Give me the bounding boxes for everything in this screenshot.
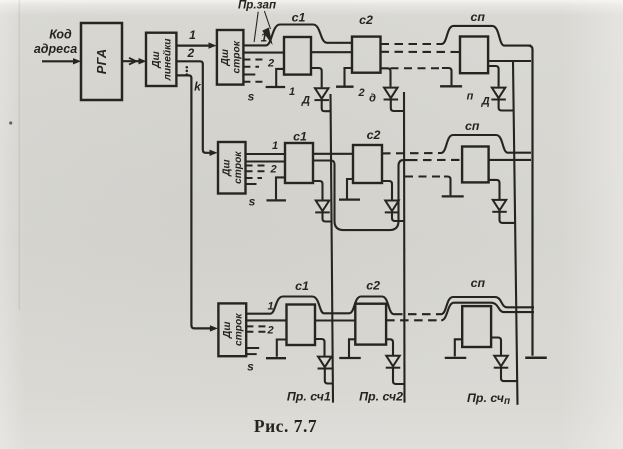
svg-text:с1: с1 — [295, 279, 309, 293]
svg-text:Дш: Дш — [151, 51, 162, 68]
svg-text:адреса: адреса — [34, 42, 77, 56]
svg-text:Пр. сч2: Пр. сч2 — [359, 390, 403, 404]
svg-text:с2: с2 — [366, 279, 380, 293]
svg-text:s: s — [247, 360, 254, 374]
svg-text:п: п — [467, 91, 474, 103]
svg-text:s: s — [249, 195, 256, 209]
svg-text:Пр. сч1: Пр. сч1 — [287, 390, 331, 404]
svg-text:сп: сп — [471, 276, 486, 290]
svg-text:2: 2 — [186, 46, 194, 60]
svg-text:с1: с1 — [292, 10, 306, 24]
svg-text:строк: строк — [233, 151, 244, 184]
svg-text:д: д — [369, 93, 376, 105]
svg-text:строк: строк — [231, 40, 242, 73]
svg-text:Дш: Дш — [222, 322, 233, 339]
svg-text:с1: с1 — [293, 129, 307, 143]
svg-text:2: 2 — [269, 163, 276, 175]
svg-text:Д: Д — [481, 96, 490, 108]
svg-text:1: 1 — [189, 28, 196, 42]
svg-text:2: 2 — [266, 324, 273, 336]
svg-text:Рис. 7.7: Рис. 7.7 — [254, 416, 317, 436]
svg-text:1: 1 — [289, 86, 295, 98]
svg-text:Код: Код — [49, 27, 72, 41]
svg-text:с2: с2 — [367, 128, 381, 142]
svg-text:сп: сп — [465, 119, 480, 133]
svg-text:s: s — [248, 90, 255, 104]
svg-text:1: 1 — [272, 140, 278, 152]
svg-text:1: 1 — [267, 301, 273, 313]
svg-text:2: 2 — [267, 58, 274, 70]
svg-text:Дш: Дш — [221, 159, 232, 176]
svg-text:Пр.зап: Пр.зап — [238, 0, 276, 12]
svg-text:Д: Д — [301, 95, 310, 107]
svg-text:Дш: Дш — [220, 49, 231, 66]
svg-text:Пр. счп: Пр. счп — [467, 391, 510, 407]
svg-text:2: 2 — [357, 87, 364, 99]
svg-text:с2: с2 — [359, 13, 373, 27]
svg-text:сп: сп — [470, 10, 485, 24]
svg-text:РГА: РГА — [94, 49, 109, 74]
svg-text:1: 1 — [261, 33, 267, 45]
svg-text:k: k — [194, 80, 202, 94]
svg-text:линейки: линейки — [163, 38, 174, 82]
svg-text:строк: строк — [234, 313, 245, 346]
